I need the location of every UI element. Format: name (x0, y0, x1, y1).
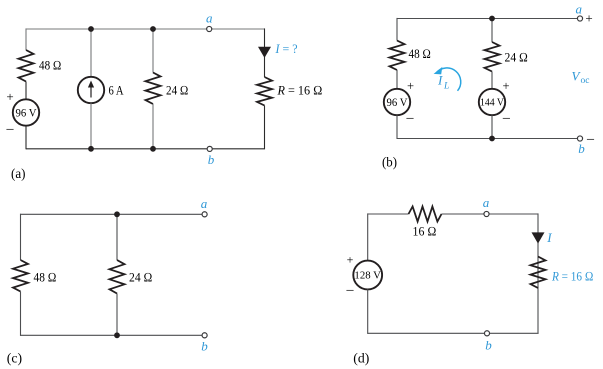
svg-text:96 V: 96 V (387, 97, 409, 109)
wire fig-c left branch lower lead (20, 292, 22, 336)
resistor 48ohm fig-c (13, 260, 28, 292)
voltage source 96V fig-b (384, 89, 410, 115)
wire fig-d left branch upper lead (367, 213, 369, 260)
svg-text:24 Ω: 24 Ω (166, 82, 189, 97)
svg-text:(d): (d) (353, 352, 369, 367)
svg-text:–: – (6, 122, 15, 137)
wire fig-a top bus (26, 28, 265, 30)
junction bottom of middle branch fig-c (114, 332, 120, 338)
svg-text:128 V: 128 V (354, 271, 381, 282)
wire fig-a 6A branch upper lead (90, 29, 92, 77)
resistor 48ohm fig-a (19, 50, 34, 82)
svg-text:oc: oc (581, 76, 590, 86)
svg-text:–: – (406, 110, 415, 125)
terminal b fig-b (577, 136, 582, 141)
wire fig-b bottom bus (397, 138, 577, 140)
wire fig-b left branch upper lead (396, 18, 398, 41)
svg-text:a: a (575, 2, 582, 17)
wire fig-a 96V to bottom bus (25, 126, 27, 150)
svg-text:24 Ω: 24 Ω (129, 269, 153, 284)
svg-text:a: a (483, 195, 490, 210)
wire fig-a 6A branch lower lead (90, 103, 92, 149)
svg-text:b: b (578, 141, 585, 156)
svg-text:I: I (437, 73, 443, 88)
terminal b fig-d (484, 331, 489, 336)
junction top of middle branch fig-b (489, 16, 495, 22)
junction top of middle branch fig-c (114, 211, 120, 217)
svg-text:+: + (502, 79, 509, 93)
junction top of 24ohm branch fig-a (150, 26, 156, 32)
wire fig-d top bus right segment (442, 213, 539, 215)
wire fig-b 48ohm to 96V source (396, 70, 398, 89)
terminal a fig-d (484, 211, 489, 216)
resistor 24ohm fig-b (485, 42, 500, 72)
junction bottom of 24ohm branch fig-a (150, 146, 156, 152)
terminal b fig-c (202, 333, 207, 338)
voltage source 96V fig-a (13, 99, 39, 125)
wire fig-b 96V to bottom bus (396, 115, 398, 139)
wire fig-d left branch lower lead (367, 289, 369, 334)
svg-text:–: – (586, 132, 595, 147)
wire fig-c top bus (21, 213, 202, 215)
wire fig-b top bus (397, 18, 577, 20)
wire fig-b 144V to bottom bus (491, 115, 493, 139)
svg-text:a: a (201, 196, 208, 211)
wire fig-b middle branch upper lead (491, 19, 493, 43)
current arrow I fig-a (258, 47, 271, 58)
terminal a fig-a (207, 26, 212, 31)
wire fig-c bottom bus (21, 334, 202, 336)
wire fig-b 24ohm to 144V source (491, 72, 493, 89)
wire fig-a 48ohm to 96V source (25, 82, 27, 100)
resistor 16ohm fig-d (409, 207, 442, 222)
wire fig-d right branch (537, 213, 539, 333)
wire fig-a right branch lower (264, 106, 266, 150)
svg-text:+: + (407, 79, 414, 93)
resistor R 16ohm fig-d (531, 257, 546, 289)
svg-text:–: – (346, 283, 355, 298)
terminal a fig-b (577, 16, 582, 21)
svg-text:R = 16 Ω: R = 16 Ω (277, 82, 323, 97)
svg-text:R = 16 Ω: R = 16 Ω (551, 268, 593, 283)
wire fig-c left branch upper lead (20, 214, 22, 260)
terminal a fig-c (202, 212, 207, 217)
voltage source 144V fig-b (479, 89, 505, 115)
wire fig-d bottom bus (368, 332, 539, 334)
svg-text:I = ?: I = ? (275, 41, 298, 56)
svg-text:16 Ω: 16 Ω (413, 224, 437, 239)
loop current arrow IL fig-b (434, 67, 461, 91)
wire fig-c middle branch upper lead (116, 214, 118, 260)
svg-text:144 V: 144 V (480, 98, 504, 109)
junction top of 6A branch fig-a (88, 26, 94, 32)
wire fig-a right branch upper (264, 28, 266, 77)
wire fig-a bottom bus (26, 148, 265, 150)
current source 6A fig-a (78, 77, 104, 103)
svg-text:–: – (502, 110, 511, 125)
wire fig-d top bus left segment (368, 213, 409, 215)
svg-text:+: + (347, 253, 354, 267)
svg-text:48 Ω: 48 Ω (34, 269, 57, 284)
resistor 24ohm fig-c (110, 260, 125, 294)
wire fig-a 24ohm branch upper lead (152, 29, 154, 73)
svg-text:24 Ω: 24 Ω (505, 49, 529, 64)
wire fig-a 24ohm branch lower lead (152, 104, 154, 149)
svg-text:a: a (206, 11, 213, 26)
svg-text:b: b (208, 152, 215, 167)
resistor R 16ohm fig-a (257, 77, 272, 106)
junction bottom of 6A branch fig-a (88, 146, 94, 152)
voltage source 128V fig-d (353, 261, 382, 290)
current arrow I fig-d (532, 232, 545, 243)
svg-text:(b): (b) (382, 156, 397, 171)
svg-text:L: L (443, 81, 449, 91)
resistor 48ohm fig-b (390, 41, 405, 71)
resistor 24ohm fig-a (146, 73, 161, 105)
wire fig-c middle branch lower lead (116, 294, 118, 336)
svg-text:48 Ω: 48 Ω (409, 46, 432, 61)
svg-text:+: + (585, 10, 592, 25)
svg-text:48 Ω: 48 Ω (39, 57, 62, 72)
junction bottom of middle branch fig-b (489, 136, 495, 142)
wire fig-a left branch upper lead (25, 28, 27, 50)
svg-text:I: I (546, 230, 552, 245)
svg-text:(c): (c) (7, 352, 23, 367)
svg-text:(a): (a) (11, 167, 26, 182)
svg-text:b: b (485, 338, 492, 353)
svg-text:6 A: 6 A (109, 82, 124, 97)
terminal b fig-a (207, 146, 212, 151)
svg-text:96 V: 96 V (16, 107, 38, 119)
svg-text:b: b (201, 339, 208, 354)
svg-text:+: + (6, 89, 13, 104)
